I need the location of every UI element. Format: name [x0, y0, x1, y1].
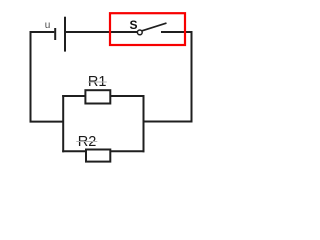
label R2 strike line [76, 141, 97, 143]
svg-text:u: u [45, 20, 51, 31]
wire: right bus vertical [143, 95, 145, 152]
wire: right junction to right bus [143, 121, 193, 123]
wire: battery positive terminal to switch pivot [66, 31, 137, 33]
svg-text:S: S [129, 18, 137, 32]
label R1 strike line [88, 81, 107, 83]
wire: left bus vertical [62, 95, 64, 152]
resistor R1 [85, 90, 110, 103]
highlight box around switch [110, 13, 185, 45]
wire: R2 rail right segment [110, 150, 144, 152]
wire: left junction to left bus [30, 121, 64, 123]
wire: R2 rail left segment [62, 150, 86, 152]
resistor R2 [86, 150, 110, 162]
wire: top-left from battery negative terminal to top-left corner, down to left junction [31, 32, 55, 122]
switch S (open) [137, 23, 166, 35]
wire: R1 rail right segment [110, 95, 144, 97]
wire: switch fixed contact to top-right corner, down to right junction [161, 32, 192, 122]
wire: R1 rail left segment [62, 95, 85, 97]
battery B1 [55, 17, 65, 52]
svg-text:R2: R2 [78, 134, 97, 150]
